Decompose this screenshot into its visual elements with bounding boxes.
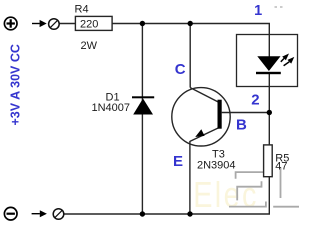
junction bottom at emitter branch (187, 211, 192, 216)
svg-text:2N3904: 2N3904 (197, 160, 236, 172)
wire emitter vertical (189, 141, 191, 214)
svg-text:47: 47 (275, 161, 287, 173)
svg-text:1N4007: 1N4007 (92, 102, 131, 114)
watermark grey logo stroke 4 (280, 167, 282, 198)
svg-text:2: 2 (251, 91, 259, 108)
svg-text:Elec: Elec (193, 174, 259, 215)
wire emitter diagonal (190, 128, 219, 141)
svg-text:+3V A 30V CC: +3V A 30V CC (9, 44, 23, 125)
watermark grey logo stroke 2 (237, 181, 261, 200)
wire collector branch vertical (189, 24, 191, 88)
connector bottom slash circle (53, 209, 64, 220)
transistor T3 emitter arrowhead (195, 129, 204, 137)
watermark grey logo stroke 1 (236, 172, 266, 179)
LED light arrow 1 (281, 54, 289, 62)
battery positive terminal (4, 17, 17, 30)
battery negative terminal (4, 207, 17, 220)
wire top positive rail (59, 23, 75, 25)
resistor R4 body (75, 16, 112, 30)
svg-text:R4: R4 (75, 3, 89, 15)
svg-text:C: C (175, 61, 186, 78)
watermark grey logo stroke 3 (229, 202, 266, 207)
svg-text:2W: 2W (81, 40, 98, 52)
wire collector diagonal (190, 88, 218, 102)
arrow top feed (32, 20, 47, 27)
wire R4 to LED corner (112, 24, 269, 57)
transistor T3 circle (172, 88, 230, 146)
LED symbol (256, 56, 281, 74)
arrow bottom feed (32, 210, 47, 217)
svg-text:220: 220 (80, 18, 98, 30)
connector top slash circle (49, 19, 60, 30)
transistor T3 base bar (218, 100, 222, 129)
watermark grey logo stroke 5 (273, 206, 299, 208)
svg-text:B: B (236, 116, 247, 133)
junction top at collector branch (188, 21, 193, 26)
diode D1 symbol (132, 96, 154, 114)
svg-text:1: 1 (254, 3, 262, 19)
LED light arrow 2 (284, 57, 295, 66)
junction base node (267, 110, 272, 115)
wire LED cathode down to R5 (268, 74, 270, 146)
LED module box (237, 35, 298, 87)
watermark grey dots top right (275, 6, 283, 8)
junction bottom at diode branch (140, 211, 145, 216)
resistor R5 body (264, 145, 273, 177)
wire base horizontal (222, 112, 270, 114)
wire R5 bottom down to negative rail (64, 176, 269, 214)
junction top at diode branch (140, 21, 145, 26)
svg-text:E: E (173, 153, 183, 170)
wire diode branch vertical (141, 24, 143, 215)
